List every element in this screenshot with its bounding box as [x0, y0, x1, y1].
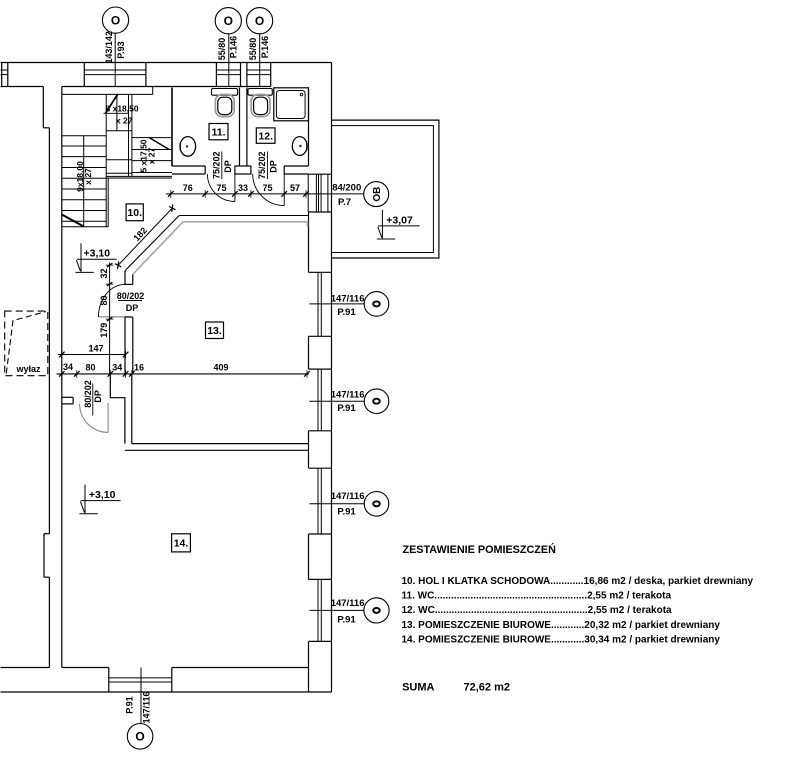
svg-text:147/116: 147/116 — [142, 691, 152, 723]
svg-text:409: 409 — [213, 363, 228, 373]
svg-text:P.91: P.91 — [337, 614, 356, 625]
svg-text:SUMA: SUMA — [402, 682, 434, 694]
svg-text:182: 182 — [131, 225, 149, 243]
svg-text:ZESTAWIENIE POMIESZCZEŃ: ZESTAWIENIE POMIESZCZEŃ — [403, 543, 557, 556]
svg-text:wyłaz: wyłaz — [16, 364, 42, 374]
svg-text:P.91: P.91 — [337, 307, 356, 318]
svg-text:143/142: 143/142 — [104, 31, 114, 64]
svg-text:75/202: 75/202 — [257, 151, 267, 179]
svg-text:84/200: 84/200 — [332, 183, 361, 194]
svg-text:72,62 m2: 72,62 m2 — [464, 682, 510, 694]
svg-text:57: 57 — [290, 183, 300, 193]
svg-text:147/116: 147/116 — [331, 491, 365, 502]
svg-text:13.: 13. — [207, 325, 222, 337]
svg-text:x 27: x 27 — [147, 147, 157, 164]
svg-text:10. HOL I KLATKA SCHODOWA.....: 10. HOL I KLATKA SCHODOWA............16,… — [402, 576, 754, 587]
svg-text:P.91: P.91 — [337, 403, 356, 414]
svg-text:11.: 11. — [211, 127, 225, 139]
svg-text:O: O — [111, 13, 120, 27]
svg-text:80/202: 80/202 — [83, 380, 93, 408]
svg-text:14. POMIESZCZENIE BIUROWE.....: 14. POMIESZCZENIE BIUROWE............30,… — [402, 634, 721, 645]
svg-text:16: 16 — [134, 363, 144, 373]
svg-text:P.91: P.91 — [337, 507, 356, 518]
svg-text:P.7: P.7 — [338, 197, 351, 208]
svg-text:+3,10: +3,10 — [89, 489, 116, 501]
svg-text:76: 76 — [183, 183, 193, 193]
svg-text:179: 179 — [99, 323, 109, 338]
svg-text:O: O — [255, 14, 264, 28]
svg-text:34: 34 — [63, 362, 73, 372]
svg-text:x 27: x 27 — [83, 168, 93, 185]
svg-text:147/116: 147/116 — [331, 598, 365, 609]
svg-text:12.: 12. — [258, 131, 273, 143]
svg-text:55/80: 55/80 — [217, 38, 227, 61]
svg-text:O: O — [135, 730, 144, 744]
svg-text:33: 33 — [238, 183, 248, 193]
svg-text:32: 32 — [99, 268, 109, 278]
svg-text:75/202: 75/202 — [212, 151, 222, 179]
svg-text:DP: DP — [126, 303, 139, 313]
svg-text:147/116: 147/116 — [331, 293, 365, 304]
svg-text:P.91: P.91 — [125, 696, 135, 713]
svg-text:75: 75 — [262, 183, 272, 193]
svg-text:+3,10: +3,10 — [84, 248, 111, 260]
svg-text:11. WC........................: 11. WC..................................… — [402, 591, 672, 602]
svg-text:80: 80 — [85, 363, 95, 373]
svg-text:x 27: x 27 — [116, 115, 133, 125]
svg-text:14.: 14. — [174, 538, 189, 550]
svg-text:DP: DP — [93, 390, 103, 403]
svg-text:O: O — [224, 14, 233, 28]
svg-text:147: 147 — [88, 344, 103, 354]
svg-text:DP: DP — [223, 160, 233, 173]
svg-text:75: 75 — [216, 183, 226, 193]
svg-text:34: 34 — [112, 363, 122, 373]
svg-text:80: 80 — [99, 295, 109, 305]
svg-text:13. POMIESZCZENIE BIUROWE.....: 13. POMIESZCZENIE BIUROWE............20,… — [402, 620, 721, 631]
svg-text:P.146: P.146 — [229, 36, 239, 58]
svg-text:OB: OB — [372, 187, 383, 202]
svg-text:12. WC........................: 12. WC..................................… — [402, 605, 673, 616]
svg-text:147/116: 147/116 — [331, 389, 365, 400]
svg-text:55/80: 55/80 — [248, 38, 258, 61]
svg-text:10.: 10. — [127, 207, 142, 219]
svg-text:8 x18,50: 8 x18,50 — [106, 104, 139, 114]
svg-text:80/202: 80/202 — [117, 291, 145, 301]
svg-text:DP: DP — [268, 160, 278, 173]
svg-text:P.93: P.93 — [116, 41, 126, 58]
svg-text:+3,07: +3,07 — [386, 214, 413, 226]
svg-text:P.146: P.146 — [260, 36, 270, 58]
